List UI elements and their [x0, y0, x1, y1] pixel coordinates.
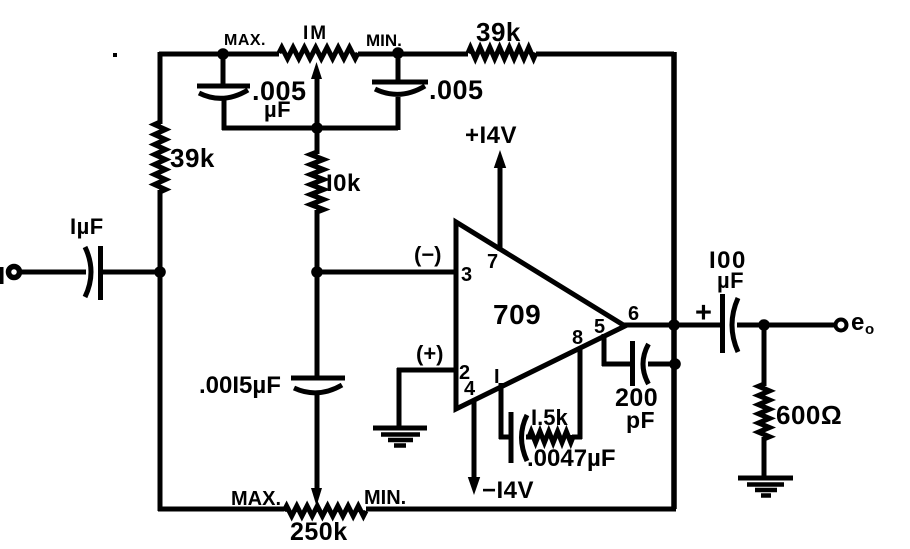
svg-text:−I4V: −I4V — [482, 477, 534, 504]
wire wiper to R3 — [315, 126, 320, 154]
svg-text:+: + — [695, 297, 712, 329]
wire pin 1 lead — [499, 383, 512, 439]
svg-text:709: 709 — [493, 299, 541, 330]
svg-text:MAX.: MAX. — [224, 32, 266, 49]
wire C1 to left rail — [102, 270, 162, 275]
svg-text:µF: µF — [264, 97, 291, 122]
scan speck — [113, 53, 117, 57]
+14V supply arrow — [494, 150, 506, 168]
wire capacitor bottom bus — [222, 126, 398, 131]
svg-text:.005: .005 — [429, 75, 484, 105]
svg-text:+I4V: +I4V — [465, 122, 517, 149]
resistor R1 39k (left) — [155, 122, 166, 192]
svg-text:.0047µF: .0047µF — [527, 445, 616, 472]
svg-text:(+): (+) — [416, 341, 444, 366]
svg-text:3: 3 — [461, 264, 472, 286]
svg-text:250k: 250k — [290, 518, 348, 546]
svg-text:MIN.: MIN. — [364, 487, 406, 509]
svg-text:600Ω: 600Ω — [776, 400, 842, 430]
wire pin4 supply lead — [472, 399, 477, 479]
svg-text:MAX.: MAX. — [231, 488, 281, 510]
wire right rail (feedback) — [671, 52, 677, 509]
svg-text:e: e — [851, 309, 864, 336]
wire load resistor top lead — [762, 323, 767, 386]
potentiometer R7 250k (bottom) — [284, 506, 366, 516]
label input terminal stub (cut) — [0, 267, 4, 284]
wire top-left segment — [159, 52, 279, 57]
node input junction on left rail — [154, 266, 166, 278]
-14V supply arrow — [468, 477, 480, 495]
node wiper junction (top) — [311, 122, 323, 134]
wire bottom-left segment — [158, 507, 284, 512]
wire non-inverting input to op-amp — [397, 368, 456, 373]
svg-text:6: 6 — [628, 303, 639, 325]
svg-text:IµF: IµF — [70, 214, 104, 239]
svg-text:o: o — [865, 321, 874, 338]
wire op-amp output — [623, 323, 724, 328]
svg-text:I0k: I0k — [326, 170, 361, 197]
resistor R4 39k (top right) — [468, 48, 536, 59]
resistor R5 1.5k — [529, 432, 573, 443]
wire pin 5 lead — [602, 334, 634, 366]
wire bottom-right segment — [366, 507, 676, 512]
svg-text:39k: 39k — [476, 17, 521, 47]
node MAX (top pot left end) — [217, 48, 229, 60]
ground (output load) — [738, 478, 793, 496]
svg-text:pF: pF — [626, 407, 655, 433]
wire inverting input to op-amp — [315, 270, 456, 275]
node C6 rail junction — [669, 358, 681, 370]
capacitor C1 1uF — [85, 246, 101, 300]
resistor R3 10k — [311, 152, 324, 212]
node inverting input junction — [311, 266, 323, 278]
svg-text:MIN.: MIN. — [366, 31, 402, 50]
wire C7 to output terminal — [737, 323, 835, 328]
resistor R6 600ohm — [759, 384, 770, 439]
wire R3 to inverting node — [315, 210, 320, 273]
capacitor C3 .005uF (right) — [372, 82, 428, 94]
capacitor C5 .0047uF — [511, 412, 527, 463]
wire C4 top lead — [315, 269, 320, 379]
input terminal circle — [9, 267, 20, 278]
wire C2 bottom lead — [222, 99, 227, 130]
wire C3 bottom lead — [396, 97, 401, 130]
node output rail junction — [668, 319, 680, 331]
capacitor C2 .005uF (left) — [197, 86, 250, 98]
wire left rail upper — [158, 52, 163, 124]
wiper arrow of R2 (points up) — [311, 62, 322, 129]
svg-text:(−): (−) — [414, 242, 442, 267]
wire C3 top lead — [396, 52, 401, 84]
wire C4 bottom lead — [315, 392, 320, 489]
wire top-middle segment — [358, 52, 468, 57]
svg-text:I.5k: I.5k — [531, 405, 568, 430]
svg-text:39k: 39k — [170, 143, 215, 173]
svg-text:8: 8 — [572, 327, 583, 349]
wire C5 to R5 — [526, 435, 532, 440]
wire pin7 supply lead — [498, 166, 503, 251]
wire C6 to right rail — [648, 362, 676, 367]
capacitor C4 .0015uF — [291, 378, 345, 393]
wire R5 to pin 8 — [572, 348, 582, 439]
wire top-right segment to corner — [536, 52, 674, 57]
svg-text:4: 4 — [464, 378, 476, 400]
capacitor C7 100uF — [723, 294, 739, 353]
wire C2 top lead — [221, 52, 226, 87]
svg-text:µF: µF — [717, 268, 744, 293]
wire input to C1 — [20, 270, 86, 275]
wire non-inverting to ground — [397, 368, 402, 428]
node load junction — [758, 319, 770, 331]
op-amp U1 709 triangle — [456, 222, 625, 409]
wire left rail lower — [158, 190, 163, 511]
label output e_o — [851, 309, 874, 338]
wire load resistor bottom lead — [762, 437, 767, 479]
wiper arrow of R7 (points down) — [311, 488, 322, 506]
svg-text:IM: IM — [303, 23, 328, 44]
svg-text:7: 7 — [487, 251, 498, 273]
node MIN (top pot right end) — [392, 47, 404, 59]
svg-text:.00I5µF: .00I5µF — [199, 372, 281, 399]
potentiometer R2 1M (top) — [279, 48, 358, 59]
capacitor C6 200pF — [633, 341, 649, 386]
output terminal circle — [836, 320, 847, 331]
ground (non-inverting input) — [373, 428, 427, 446]
